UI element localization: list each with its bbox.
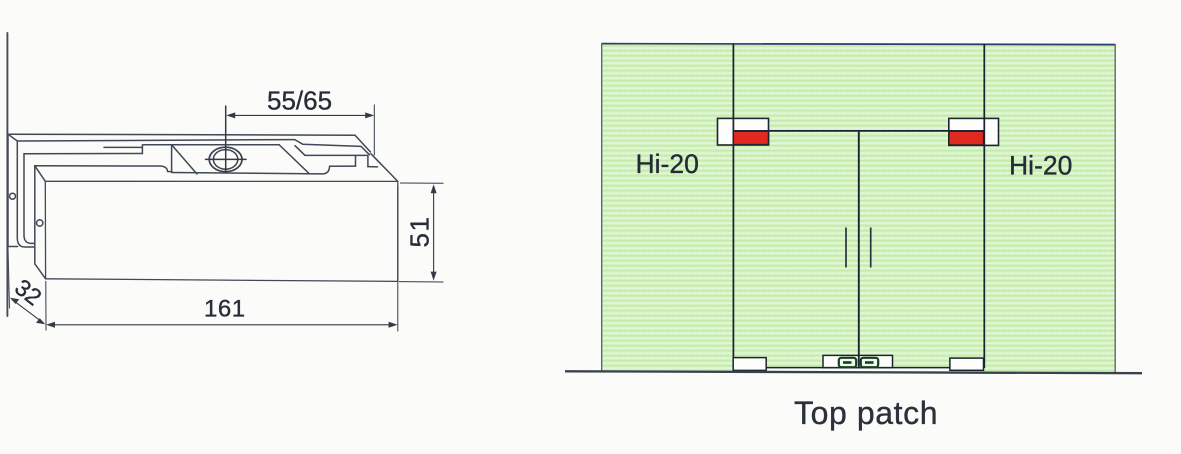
dim 55/65 left arrow — [226, 112, 235, 118]
svg-text:51: 51 — [405, 216, 435, 248]
bottom lock right dash — [865, 361, 874, 364]
inner edge step 1 — [295, 140, 361, 147]
back plate left edge — [7, 134, 9, 246]
bottom lock left insert — [839, 358, 856, 367]
bottom lock right insert — [861, 358, 878, 367]
door meeting stile centre line — [858, 131, 860, 368]
dim 55/65 line — [229, 114, 372, 116]
top patch red body left — [733, 131, 768, 144]
middle plate left edge with foot curve — [24, 154, 35, 244]
door bottom edge — [733, 367, 984, 369]
svg-text:Hi-20: Hi-20 — [1009, 151, 1072, 181]
front face right edge — [397, 181, 399, 281]
slot bottom edge — [172, 166, 356, 174]
back plate top edge — [8, 134, 355, 135]
slot left vertical edge — [171, 145, 173, 172]
wall left edge — [601, 44, 603, 372]
pivot crosshair horizontal — [206, 158, 247, 160]
top patch fitting left (white plate) — [718, 118, 769, 145]
right door hinge-side edge / sidelite divider — [983, 44, 985, 368]
dim 161 left arrow — [46, 322, 55, 328]
dim 161 right extension — [397, 186, 399, 332]
dim 32 upper arrow — [10, 298, 19, 304]
front face bottom edge — [46, 279, 398, 282]
dimension lines — [10, 105, 444, 332]
dim 32 lower arrow — [36, 318, 45, 324]
wall right edge — [1114, 45, 1116, 373]
step box right edge — [367, 155, 369, 166]
left door handle — [845, 228, 847, 268]
slot top edge — [143, 144, 279, 146]
back plate hole — [10, 193, 16, 199]
bottom lock left dash — [843, 361, 852, 364]
left door hinge-side edge / sidelite divider — [732, 44, 734, 368]
svg-text:55/65: 55/65 — [267, 86, 332, 116]
dim 32 line — [12, 299, 43, 322]
middle plate shelf line — [104, 146, 142, 148]
body left face hole — [37, 220, 43, 226]
hatch diagonal left — [172, 145, 197, 174]
middle plate top edge — [24, 153, 142, 155]
dim 161 line — [49, 324, 395, 326]
bottom patch left (white) — [733, 358, 766, 371]
dim 161 right arrow — [389, 322, 398, 328]
top patch fitting right (white plate) — [949, 118, 999, 145]
front face left edge — [44, 181, 46, 278]
body bottom-left thickness edge — [35, 264, 46, 279]
back plate left thickness edge — [8, 134, 17, 141]
body top-face back edge — [35, 166, 172, 172]
step box left edge — [355, 155, 357, 166]
glass wall green panel — [602, 43, 1116, 371]
scan edge artifact line — [6, 33, 8, 316]
slot left step — [141, 145, 143, 154]
front face top edge — [45, 180, 398, 182]
pivot circle inner — [213, 150, 237, 170]
pivot vertical centerline / 55-65 left extension — [225, 106, 227, 172]
floor line — [565, 371, 1142, 373]
dim 51 top extension — [400, 182, 444, 184]
svg-text:161: 161 — [204, 296, 246, 323]
inner edge step 2 — [361, 146, 370, 154]
dim 51 line — [433, 187, 435, 278]
svg-text:Hi-20: Hi-20 — [636, 149, 699, 179]
top patch red body right — [949, 131, 984, 145]
mid step diagonal — [295, 146, 305, 156]
back plate left edge extension — [8, 247, 10, 309]
wall top edge — [602, 44, 1116, 45]
dim 51 bottom extension — [399, 281, 444, 283]
dim 55/65 right arrow — [365, 112, 374, 118]
svg-text:32: 32 — [10, 274, 47, 311]
dim 55/65 right extension — [373, 105, 375, 156]
right door handle — [870, 228, 872, 268]
dim 51 top arrow — [431, 184, 437, 193]
wall outline — [602, 44, 1116, 373]
back plate inner top edge — [17, 140, 295, 141]
door threshold gap — [733, 368, 984, 371]
back plate bottom edge — [8, 246, 18, 248]
step box lower ledge — [368, 166, 378, 168]
body left thickness edge — [35, 166, 46, 182]
back plate inner left edge with foot curve — [17, 141, 34, 247]
dim 51 bottom arrow — [431, 272, 437, 281]
bottom centre lock housing (white) — [823, 355, 893, 367]
bottom patch right (white) — [950, 358, 984, 370]
dimension texts — [10, 86, 435, 323]
pivot circle outer — [209, 147, 242, 171]
dim 161 left extension — [45, 281, 47, 331]
body back-left edge — [34, 166, 36, 264]
mid step ledge — [305, 154, 368, 156]
labels — [636, 149, 1073, 431]
right end chamfer — [371, 154, 398, 182]
hatch diagonal right — [279, 145, 308, 173]
door top line — [733, 130, 984, 132]
svg-text:Top patch: Top patch — [794, 395, 938, 431]
back plate right chamfer — [355, 135, 371, 152]
